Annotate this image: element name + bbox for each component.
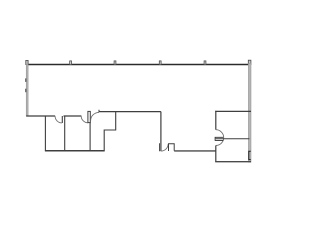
column mark on left wall lower xyxy=(25,89,26,93)
door D3 leaf xyxy=(159,143,161,151)
column bump B2 on top wall xyxy=(114,61,116,65)
step wall xyxy=(104,112,116,151)
room block left wall lower xyxy=(215,146,217,162)
column bump B4 on top wall xyxy=(204,61,206,65)
room block top wall xyxy=(215,110,251,112)
door D4 leaf bracket xyxy=(215,137,223,140)
room divider W3 xyxy=(89,123,91,151)
door D3 swing arc xyxy=(161,144,168,151)
column bump B1 on top wall xyxy=(70,61,72,65)
column bump B3 on top wall xyxy=(159,61,161,65)
column cap top-right corner xyxy=(248,60,251,64)
rooms bottom wall xyxy=(45,150,105,152)
column mark on left wall upper xyxy=(25,78,26,82)
right exterior wall xyxy=(248,63,251,162)
door D4 swing arc xyxy=(216,130,224,146)
column cap top-left corner xyxy=(26,60,28,64)
hall top wall xyxy=(99,111,161,113)
rooms top wall middle segment xyxy=(64,115,82,117)
door D3 jamb block xyxy=(169,144,175,151)
room block divider wall xyxy=(216,138,250,140)
room block left wall upper xyxy=(215,111,217,130)
door D1 swing arc xyxy=(55,116,62,123)
door D2 right swing arc xyxy=(91,112,99,120)
room block bottom wall xyxy=(215,161,251,163)
door D1 leaf xyxy=(61,116,63,123)
rooms top wall left segment xyxy=(26,115,55,117)
corridor wall xyxy=(174,150,216,152)
top wall xyxy=(26,64,251,66)
left exterior wall xyxy=(26,64,28,116)
center tall wall xyxy=(160,112,162,152)
room divider W2 xyxy=(64,116,66,151)
room divider W1 xyxy=(44,116,46,151)
door/window bracket on right wall xyxy=(249,151,251,159)
door D2 left swing arc xyxy=(81,116,88,123)
door D2 leaf xyxy=(88,111,90,122)
hall wall jamb tick xyxy=(98,110,100,112)
